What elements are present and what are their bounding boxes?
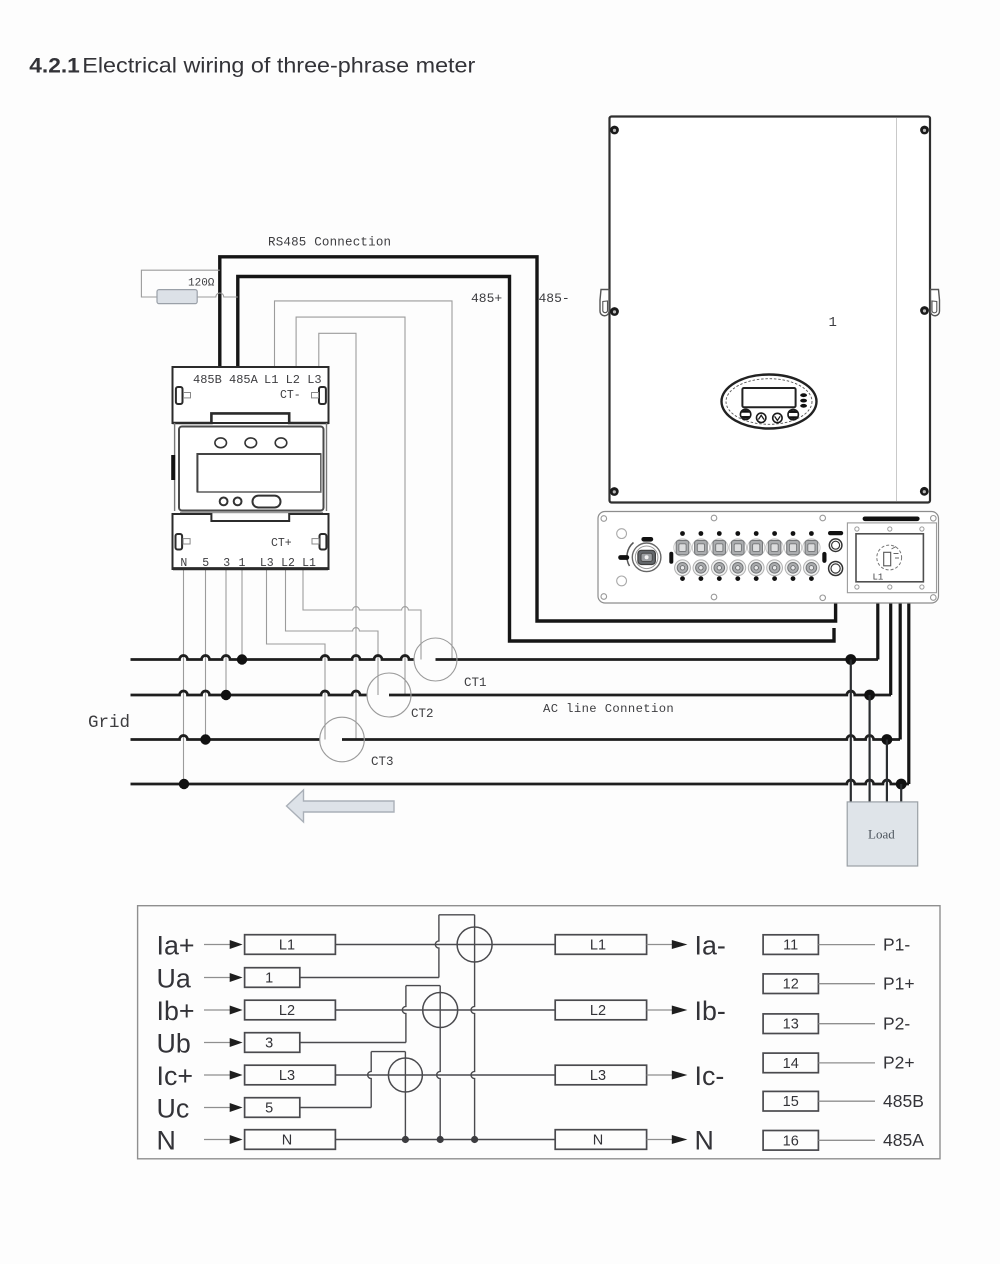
strip black pill left bbox=[618, 555, 629, 560]
svg-text:Ub: Ub bbox=[157, 1028, 191, 1058]
svg-text:3: 3 bbox=[265, 1036, 273, 1052]
svg-text:Ia+: Ia+ bbox=[157, 930, 195, 960]
meter clamp top-right bbox=[312, 387, 326, 404]
svg-text:4.2.1: 4.2.1 bbox=[29, 55, 80, 78]
svg-text:L1: L1 bbox=[302, 557, 316, 570]
wire L3 voltage tap (meter top) to CT3 bbox=[319, 333, 356, 739]
svg-text:L2: L2 bbox=[279, 1003, 295, 1019]
meter clamp bottom-left bbox=[176, 534, 191, 550]
meter clamp bottom-right bbox=[312, 534, 326, 550]
svg-text:Ia-: Ia- bbox=[695, 930, 726, 960]
inverter mounting ear right bbox=[930, 290, 940, 316]
node load L2 junction bbox=[864, 690, 875, 701]
wire load L3 bbox=[886, 740, 888, 803]
node 3-L2 junction bbox=[221, 690, 231, 700]
svg-text:3: 3 bbox=[223, 557, 230, 570]
grid line L2 bbox=[131, 691, 368, 695]
fuse box N (N) bbox=[245, 1130, 336, 1150]
svg-text:485B: 485B bbox=[883, 1091, 924, 1111]
svg-text:N: N bbox=[180, 557, 187, 570]
svg-text:N: N bbox=[282, 1133, 292, 1149]
CT3 bbox=[320, 717, 365, 762]
inverter display bezel bbox=[722, 375, 817, 429]
meter clamp top-left bbox=[176, 387, 191, 404]
wire load L1 bbox=[850, 660, 852, 803]
arrow Ub bbox=[204, 1042, 231, 1044]
meter top DIN tab bbox=[173, 413, 329, 423]
grid line L1 bbox=[131, 656, 415, 660]
wire AC L1 to inverter bbox=[876, 573, 879, 660]
wire terminal 11 bbox=[818, 944, 875, 946]
meter bottom terminal box bbox=[173, 514, 329, 569]
svg-text:Ic-: Ic- bbox=[695, 1061, 725, 1091]
svg-text:11: 11 bbox=[783, 938, 798, 954]
wire 3 (meter bottom) to grid L2 bbox=[225, 569, 227, 695]
svg-text:CT3: CT3 bbox=[371, 755, 394, 769]
wire CT1 secondary (meter L1) bbox=[303, 569, 421, 660]
svg-text:14: 14 bbox=[783, 1056, 799, 1072]
arrow N bbox=[647, 1139, 674, 1141]
AC connection box outer bbox=[847, 523, 936, 593]
meter LCD bbox=[197, 454, 320, 492]
arrow Ib+ bbox=[204, 1009, 231, 1011]
fuse box L2 (Ib+) bbox=[245, 1000, 336, 1020]
meter LEDs bbox=[220, 498, 242, 506]
svg-text:Ic+: Ic+ bbox=[157, 1061, 194, 1091]
wire Uc tap loop bbox=[368, 1052, 372, 1108]
wire AC L2 to inverter bbox=[889, 573, 892, 695]
meter top terminal box bbox=[173, 367, 329, 423]
wire 120ohm termination loop bbox=[141, 270, 237, 297]
svg-text:CT1: CT1 bbox=[464, 676, 487, 690]
node N junction bbox=[179, 779, 189, 789]
svg-text:CT2: CT2 bbox=[411, 707, 434, 721]
AC connection box inner bbox=[856, 534, 923, 582]
svg-text:N: N bbox=[157, 1125, 176, 1155]
wire row N bbox=[335, 1139, 555, 1141]
wire terminal 13 bbox=[818, 1023, 875, 1025]
wire junction crossbar at RS485 connector bbox=[828, 581, 844, 584]
DC switch connector bbox=[632, 543, 661, 572]
node load N junction bbox=[896, 779, 907, 790]
fuse box L3 (Ic+) bbox=[245, 1065, 336, 1085]
meter DIN rail clip bbox=[171, 455, 175, 480]
svg-text:16: 16 bbox=[783, 1133, 799, 1149]
wire row Ua bbox=[300, 977, 439, 979]
svg-text:P1+: P1+ bbox=[883, 974, 915, 994]
wire CT3 secondary (meter L3) bbox=[267, 569, 326, 740]
wire terminal 14 bbox=[818, 1062, 875, 1064]
wire L2 voltage tap (meter top) to CT2 bbox=[296, 317, 405, 695]
AC terminal strip panel bbox=[598, 512, 939, 604]
grid line N bbox=[131, 780, 910, 784]
svg-text:485B 485A: 485B 485A bbox=[193, 373, 259, 387]
svg-text:Grid: Grid bbox=[88, 713, 130, 733]
inverter display LCD bbox=[742, 388, 795, 407]
inverter display LEDs bbox=[800, 393, 807, 407]
wire 5 (meter bottom) to grid L3 bbox=[205, 569, 207, 740]
fuse box 3 (Ub) bbox=[245, 1033, 300, 1053]
inverter inner seam bbox=[896, 118, 898, 502]
AC output terminals (8 pairs) bbox=[674, 531, 820, 581]
fuse box L1 (Ia+) bbox=[245, 935, 336, 955]
arrow Ic+ bbox=[204, 1074, 231, 1076]
strip black pill top-left bbox=[641, 537, 653, 542]
wire AC N to inverter bbox=[907, 573, 910, 784]
wire CT2 secondary (meter L2) bbox=[286, 569, 379, 695]
label meter bottom terminals N 5 3 1 L3 L2 L1 bbox=[180, 557, 316, 570]
svg-text:L1: L1 bbox=[279, 938, 295, 954]
wire CT-a vertical bbox=[471, 915, 475, 1140]
wire CT-c vertical bbox=[404, 1052, 406, 1140]
terminal 11 bbox=[763, 935, 818, 955]
wire Ua tap loop bbox=[435, 915, 439, 978]
CT1 bbox=[414, 638, 457, 681]
line box L3 out bbox=[555, 1065, 646, 1085]
svg-text:15: 15 bbox=[783, 1094, 799, 1110]
meter button bbox=[253, 496, 281, 508]
wire L1 voltage tap (meter top) to CT1 bbox=[275, 301, 453, 660]
node load L3 junction bbox=[882, 734, 893, 745]
arrow Ib- bbox=[647, 1009, 674, 1011]
inverter buttons bbox=[740, 409, 798, 423]
arrow grid power direction bbox=[287, 790, 395, 822]
strip black pill right bbox=[822, 552, 826, 563]
node N-b bbox=[437, 1136, 444, 1143]
arrow N bbox=[204, 1139, 231, 1141]
wire row Ub bbox=[300, 1042, 406, 1044]
svg-text:5: 5 bbox=[202, 557, 209, 570]
CT2 bbox=[367, 673, 411, 717]
svg-text:N: N bbox=[695, 1125, 714, 1155]
svg-text:AC line Connetion: AC line Connetion bbox=[543, 702, 674, 716]
svg-text:13: 13 bbox=[783, 1017, 799, 1033]
svg-text:L3: L3 bbox=[260, 557, 274, 570]
terminal 13 bbox=[763, 1014, 818, 1034]
svg-text:P2+: P2+ bbox=[883, 1053, 915, 1073]
wire row Ic+ bbox=[335, 1074, 555, 1076]
wire terminal 15 bbox=[818, 1100, 875, 1102]
wire row Uc bbox=[300, 1107, 371, 1109]
node N-c bbox=[471, 1136, 478, 1143]
wire load L2 bbox=[868, 695, 870, 802]
arrow Ua bbox=[204, 977, 231, 979]
svg-text:L3: L3 bbox=[279, 1068, 295, 1084]
node 5-L3 junction bbox=[200, 734, 210, 744]
wire 485B to inverter (RS485-) bbox=[220, 257, 836, 621]
grid line L3 bbox=[131, 736, 320, 740]
svg-text:P2-: P2- bbox=[883, 1014, 910, 1034]
node N-a bbox=[402, 1136, 409, 1143]
arrow Uc bbox=[204, 1107, 231, 1109]
svg-text:120Ω: 120Ω bbox=[188, 278, 215, 290]
fuse box 1 (Ua) bbox=[245, 968, 300, 988]
svg-text:Electrical wiring of three-phr: Electrical wiring of three-phrase meter bbox=[82, 55, 475, 78]
wire load N bbox=[900, 784, 902, 802]
meter indicator windows bbox=[215, 438, 287, 448]
terminal map border bbox=[138, 906, 940, 1159]
wire Ub tap loop bbox=[402, 986, 406, 1043]
CT coil b bbox=[423, 993, 458, 1028]
svg-text:Ua: Ua bbox=[157, 963, 191, 993]
line box N out bbox=[555, 1130, 646, 1150]
RS485 connector B bbox=[829, 562, 843, 576]
svg-text:Ib-: Ib- bbox=[695, 996, 726, 1026]
line box L2 out bbox=[555, 1000, 646, 1020]
wire AC L3 to inverter bbox=[899, 573, 902, 740]
DC switch arc bbox=[627, 543, 634, 567]
fuse box 5 (Uc) bbox=[245, 1098, 300, 1118]
svg-text:Load: Load bbox=[868, 827, 895, 842]
svg-text:1: 1 bbox=[238, 557, 245, 570]
svg-text:L1: L1 bbox=[590, 938, 606, 954]
svg-text:L1: L1 bbox=[873, 573, 884, 583]
wire row Ib+ bbox=[335, 1009, 555, 1011]
wire row Ia+ bbox=[335, 944, 555, 946]
strip corner screws bbox=[601, 515, 936, 600]
node load L1 junction bbox=[845, 654, 856, 665]
svg-text:12: 12 bbox=[783, 977, 799, 993]
wire 1 (meter bottom) to grid L1 bbox=[241, 569, 243, 660]
svg-text:Ib+: Ib+ bbox=[157, 996, 195, 1026]
meter body bbox=[175, 423, 327, 513]
svg-text:1: 1 bbox=[265, 971, 273, 987]
inverter U1 body bbox=[610, 117, 931, 503]
arrow Ia+ bbox=[204, 944, 231, 946]
CT coil a bbox=[457, 927, 492, 962]
svg-text:1: 1 bbox=[829, 315, 837, 331]
svg-text:L2: L2 bbox=[281, 557, 295, 570]
svg-text:485A: 485A bbox=[883, 1130, 924, 1150]
svg-text:CT+: CT+ bbox=[271, 537, 292, 550]
arrow Ia- bbox=[647, 944, 674, 946]
terminal 16 bbox=[763, 1131, 818, 1151]
svg-text:L1 L2 L3: L1 L2 L3 bbox=[264, 373, 322, 387]
resistor 120ohm bbox=[157, 290, 197, 304]
strip black pill above RS485 bbox=[828, 531, 843, 535]
svg-text:N: N bbox=[593, 1133, 603, 1149]
strip black pill mid bbox=[669, 552, 673, 564]
svg-text:CT-: CT- bbox=[280, 389, 301, 402]
svg-text:P1-: P1- bbox=[883, 934, 910, 954]
load bbox=[847, 802, 918, 866]
wire 485A to inverter (RS485+) bbox=[238, 277, 834, 642]
svg-text:5: 5 bbox=[265, 1101, 273, 1117]
svg-text:L3: L3 bbox=[590, 1068, 606, 1084]
wire terminal 16 bbox=[818, 1139, 875, 1141]
node 1-L1 junction bbox=[237, 654, 247, 664]
svg-text:RS485 Connection: RS485 Connection bbox=[268, 236, 391, 250]
inverter screws bbox=[610, 126, 929, 496]
svg-text:485+: 485+ bbox=[471, 291, 502, 306]
svg-text:L2: L2 bbox=[590, 1003, 606, 1019]
terminal 12 bbox=[763, 974, 818, 994]
terminal 14 bbox=[763, 1053, 818, 1073]
wire terminal 12 bbox=[818, 983, 875, 985]
CT coil c bbox=[388, 1058, 422, 1092]
RS485 connector A bbox=[829, 539, 842, 552]
wire CT-b vertical bbox=[437, 986, 441, 1140]
wire N (meter bottom) to grid N bbox=[183, 569, 185, 784]
arrow Ic- bbox=[647, 1074, 674, 1076]
inverter mounting ear left bbox=[600, 290, 610, 316]
svg-text:485-: 485- bbox=[539, 291, 570, 306]
AC gland circle bbox=[877, 545, 902, 570]
strip black top bar bbox=[863, 517, 920, 522]
terminal 15 bbox=[763, 1091, 818, 1111]
strip left holes bbox=[617, 529, 627, 586]
line box L1 out bbox=[555, 935, 646, 955]
svg-text:Uc: Uc bbox=[157, 1093, 190, 1123]
